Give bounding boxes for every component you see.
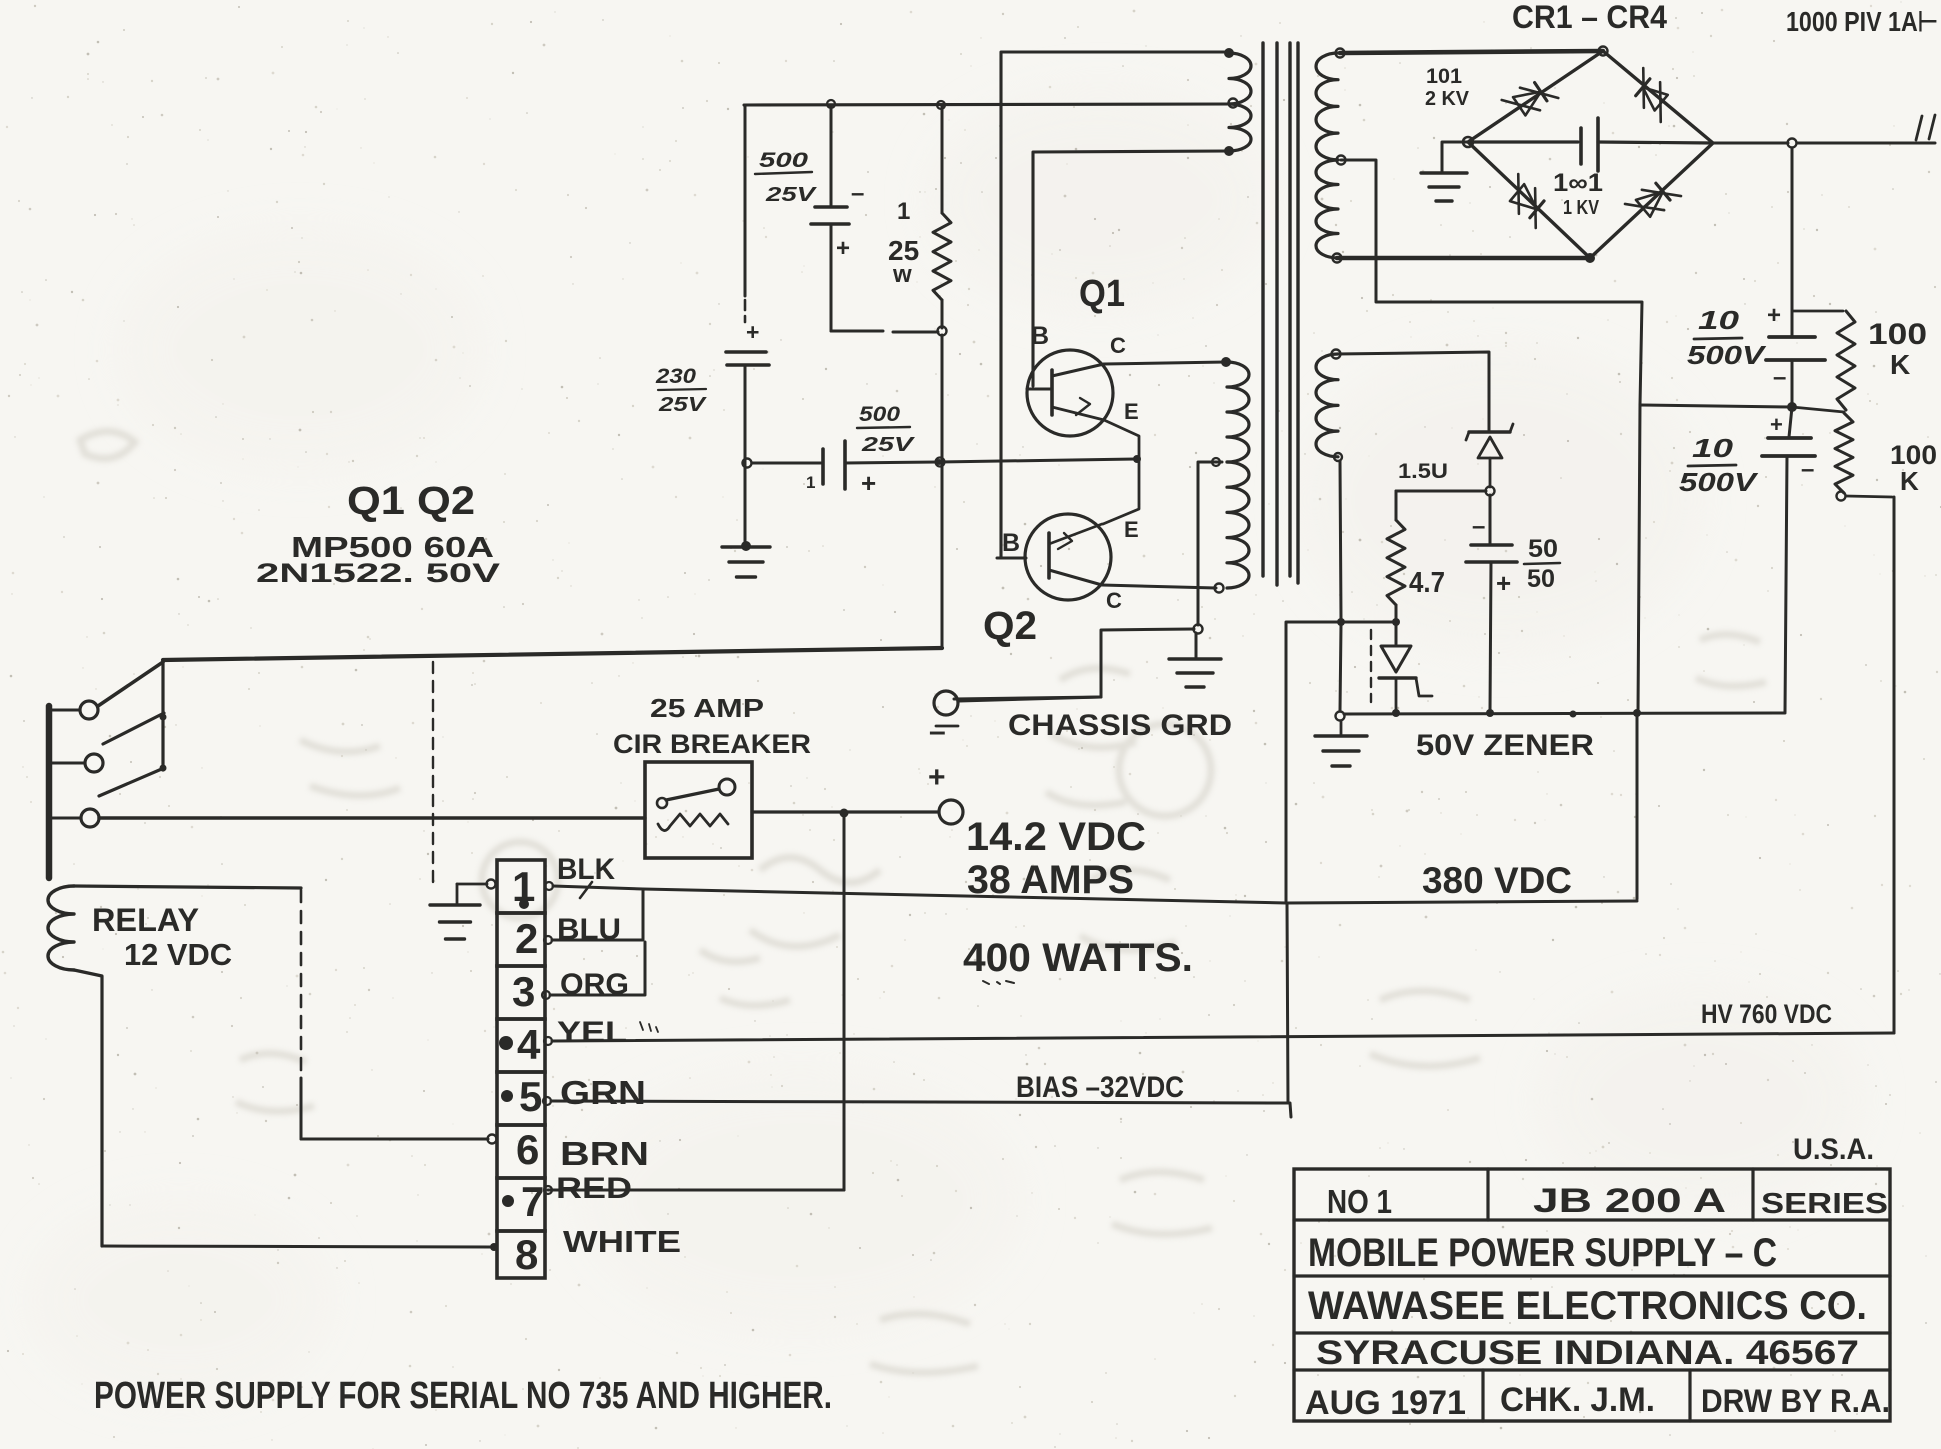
svg-text:WHITE: WHITE [563,1224,681,1259]
label BRN [560,1135,649,1172]
label C5 minus [1801,456,1814,483]
svg-text:230: 230 [655,365,696,388]
diode CR3 [1510,174,1544,228]
svg-text:K: K [1890,349,1910,380]
label 1000 PIV 1A [1786,6,1938,37]
label JB 200 A [1533,1182,1726,1220]
label WHITE [563,1224,681,1259]
label Q1 designator [1079,273,1125,315]
label minus sign [929,715,946,748]
label Q1 E [1124,399,1139,424]
svg-text:CHASSIS GRD: CHASSIS GRD [1008,709,1232,742]
resistor 100K upper [1837,311,1855,410]
svg-text:4: 4 [517,1021,541,1068]
resistor 100K lower [1835,413,1853,501]
wire Q2 base riser [1000,104,1003,558]
capacitor C5 10/500V [1762,407,1815,712]
wire y622 bus [1286,618,1400,901]
label 50V ZENER [1416,729,1594,762]
relay right lead dashed [300,890,303,1139]
label C4 plus [1767,302,1781,329]
svg-text:25V: 25V [861,434,916,456]
svg-text:25 AMP: 25 AMP [650,693,764,723]
svg-text:6: 6 [516,1126,539,1173]
label 100K upper [1868,318,1927,380]
breaker zigzag [658,814,728,831]
diode CR1 [1502,83,1559,116]
ground at terminal 1 [430,880,496,940]
wire BLK out [545,882,643,890]
label Q1 C [1110,333,1126,358]
svg-text:50: 50 [1528,535,1558,563]
svg-text:50: 50 [1527,565,1555,593]
wire Q1 collector [1104,357,1231,367]
label 38 AMPS [967,858,1134,902]
svg-text:w: w [892,261,912,288]
label ORG [560,968,629,1001]
svg-text:YEL: YEL [557,1016,627,1049]
svg-text:4.7: 4.7 [1409,567,1445,599]
svg-text:WAWASEE ELECTRONICS CO.: WAWASEE ELECTRONICS CO. [1308,1284,1867,1328]
wire Q1 emitter to node [1104,420,1141,463]
svg-text:101: 101 [1426,65,1462,88]
wire RED run [548,1189,844,1192]
svg-text:NO 1: NO 1 [1327,1183,1392,1220]
wire HV riser [1893,497,1896,1033]
wire RED terminal [544,1186,552,1194]
svg-text:25V: 25V [765,184,818,206]
svg-text:10: 10 [1698,305,1740,335]
wire C1 bottom to resistor [831,327,947,336]
wire output junction drop [843,813,846,1190]
wire ground bus y714 [1344,709,1785,718]
wire breaker to plus terminal [752,809,938,818]
ground under C2 [722,541,770,577]
wire minus terminal [954,697,1101,699]
wire C3 to emitter node [845,459,1136,465]
label Q2 designator [983,604,1037,648]
svg-text:Q1 Q2: Q1 Q2 [347,479,475,523]
label USA [1793,1133,1874,1166]
wire relay to terminal 6 [301,1135,497,1144]
label C3 value 500/25V [857,403,915,456]
label POWER SUPPLY FOR SERIAL [94,1375,832,1417]
label RELAY 12VDC [92,902,232,972]
svg-text:–: – [1773,364,1786,391]
title block grid [1294,1169,1890,1421]
label 2KV [1425,88,1470,110]
svg-text:E: E [1124,517,1139,542]
circuit breaker box [645,762,752,858]
svg-text:CHK. J.M.: CHK. J.M. [1500,1381,1655,1419]
svg-text:U.S.A.: U.S.A. [1793,1133,1874,1166]
svg-text:HV 760 VDC: HV 760 VDC [1701,999,1832,1029]
wire bias riser [1287,903,1288,1103]
svg-text:E: E [1124,399,1139,424]
svg-text:RELAY: RELAY [92,902,199,938]
svg-text:380 VDC: 380 VDC [1422,860,1572,901]
wire R2 bottom to HV line [1846,496,1892,497]
wire secondary to rectifier diode [1336,352,1489,430]
label 1KV [1563,197,1600,219]
svg-text:1000 PIV 1A⊢: 1000 PIV 1A⊢ [1786,6,1938,37]
wire bridge bottom feed [1337,256,1590,261]
label DRW BY RA [1701,1383,1890,1419]
dashed drop to terminal 1 ground [432,662,434,884]
wire HV cap column [1791,148,1794,336]
svg-text:1: 1 [806,473,815,492]
transformer secondary lower coil [1316,350,1342,462]
junction caps midpoint [1640,402,1844,412]
svg-text:+: + [1770,412,1783,437]
diode CR4 [1625,183,1681,217]
svg-text:B: B [1031,322,1049,350]
svg-text:SERIES: SERIES [1761,1188,1888,1220]
label HV 760 VDC [1701,999,1832,1029]
label Q2 C [1106,588,1122,613]
label Q2 E [1124,517,1139,542]
wire secondary lower tap down [1340,461,1341,711]
svg-text:2N1522. 50V: 2N1522. 50V [256,558,500,588]
svg-text:1: 1 [897,198,910,225]
label MOBILE POWER SUPPLY - C [1308,1231,1777,1275]
wire R bottom down to switch bus [936,335,945,648]
resistor 4.7 [1387,491,1405,644]
wire secondary mid to caps [1341,160,1642,405]
label 1.5V [1398,460,1448,483]
svg-text:1 KV: 1 KV [1563,197,1600,219]
svg-text:100: 100 [1868,318,1927,351]
svg-text:8: 8 [515,1231,538,1278]
breaker lever [657,779,735,808]
label GRN [560,1074,646,1111]
label C1 minus [851,180,864,207]
transistor Q2 [997,514,1111,600]
wire lower bus to breaker [99,816,645,819]
transformer core [1263,43,1298,585]
capacitor C6 50/50 [1466,495,1517,712]
svg-text:MOBILE POWER SUPPLY – C: MOBILE POWER SUPPLY – C [1308,1231,1777,1275]
terminal strip boxes [497,860,545,1278]
wire YEL HV bus [544,1033,1894,1045]
svg-text:CIR BREAKER: CIR BREAKER [613,729,811,759]
label C5 value [1679,433,1759,497]
label 25 AMP [650,693,764,723]
svg-text:1∞1: 1∞1 [1553,169,1603,197]
svg-text:JB 200 A: JB 200 A [1533,1182,1726,1220]
svg-text:B: B [1002,529,1020,557]
terminal chassis minus [934,691,958,726]
wire ORG out [542,942,645,999]
label BLK [557,853,615,898]
label SERIES [1761,1188,1888,1220]
svg-text:CR1 – CR4: CR1 – CR4 [1512,0,1667,35]
svg-text:C: C [1110,333,1126,358]
wire bridge output [1713,139,1935,148]
diode D5 [1466,424,1513,496]
terminal numbers [499,863,544,1278]
ground under secondary lower [1315,712,1367,767]
label C6 value [1524,535,1560,593]
svg-text:5: 5 [519,1073,542,1120]
wire GRN BIAS bus [543,1097,1291,1117]
wire chassis ground run [959,629,1194,701]
svg-text:+: + [1767,302,1781,329]
label CR1-CR4 [1512,0,1667,35]
label C3 plus [861,468,876,498]
wire switch bus [163,648,942,660]
svg-text:–: – [851,180,864,207]
switch contact 2 [49,713,164,772]
svg-text:C: C [1106,588,1122,613]
wire top bus y=105 [744,99,1238,110]
svg-text:DRW BY R.A.: DRW BY R.A. [1701,1383,1890,1419]
label Q1 B [1031,322,1049,350]
label NO 1 [1327,1183,1392,1220]
label C2 value 230/25V [655,365,707,416]
label C6 plus [1496,568,1511,598]
svg-text:RED: RED [556,1172,632,1205]
svg-text:500V: 500V [1679,467,1759,497]
label C3 one [806,473,815,492]
relay left lead [74,970,102,1246]
label Q2 B [1002,529,1020,557]
svg-text:10: 10 [1692,433,1734,463]
label BLU [557,913,621,946]
wire 380 bus [643,889,1637,903]
wire WHITE run [102,1243,498,1251]
svg-text:50V ZENER: 50V ZENER [1416,729,1594,762]
capacitor 1001 1KV [1468,118,1713,171]
svg-text:+: + [836,235,850,262]
svg-text:BLK: BLK [557,853,615,886]
svg-text:14.2 VDC: 14.2 VDC [966,815,1146,859]
svg-text:AUG 1971: AUG 1971 [1305,1384,1466,1422]
svg-text:Q1: Q1 [1079,273,1125,315]
label RED [556,1172,632,1205]
wire Q2 collector [1102,584,1224,593]
bridge diamond [1463,47,1713,264]
label AUG 1971 [1305,1384,1466,1422]
label C4 minus [1773,364,1786,391]
svg-text:+: + [746,319,759,345]
ground at center tap [1169,633,1221,687]
ground at bridge left [1421,142,1468,201]
label 14.2 VDC [966,815,1146,859]
wire riser to transformer top [1001,48,1234,558]
label BIAS -32VDC [1016,1071,1184,1104]
label H tick [1916,115,1935,140]
wire 380 vertical [1636,713,1639,899]
wire stub to 100K R1 [1792,310,1843,313]
terminal plus [939,800,963,824]
label 380 VDC [1422,860,1572,901]
svg-text:BRN: BRN [560,1135,649,1172]
label plus sign [928,761,946,794]
dash line beside zener [1370,630,1372,702]
label 101 [1426,65,1462,88]
label CHASSIS GRD [1008,709,1232,742]
svg-text:K: K [1900,466,1919,496]
svg-text:400 WATTS.: 400 WATTS. [963,936,1193,980]
svg-text:SYRACUSE INDIANA. 46567: SYRACUSE INDIANA. 46567 [1316,1334,1859,1372]
label CHK JM [1500,1381,1655,1419]
label C4 value [1687,305,1767,370]
capacitor C4 10/500V [1766,337,1825,404]
svg-text:25V: 25V [658,394,707,416]
svg-text:2: 2 [515,915,538,962]
svg-text:500: 500 [759,149,808,172]
svg-text:+: + [861,468,876,498]
transistor Q1 [1027,350,1113,436]
svg-text:BIAS –32VDC: BIAS –32VDC [1016,1071,1184,1104]
label CIR BREAKER [613,729,811,759]
wire emitter node to Q2 [1103,459,1139,524]
svg-text:1.5U: 1.5U [1398,460,1448,483]
svg-text:–: – [1801,456,1814,483]
switch contact 1 [49,662,163,719]
svg-text:7: 7 [521,1178,544,1225]
transformer primary lower coil [1223,358,1249,588]
label C1 value 500/25V [755,149,817,206]
relay coil [48,886,301,970]
svg-text:+: + [1496,568,1511,598]
label C5 plus [1770,412,1783,437]
capacitor C2 230/25V [726,105,769,546]
label 4.7 [1409,567,1445,599]
transformer secondary upper coil [1316,49,1346,263]
svg-text:+: + [928,761,946,794]
svg-text:500: 500 [859,403,900,426]
wire bridge top feed [1340,51,1603,53]
wire caps column to y714 [1638,405,1640,713]
switch pole bar [46,706,53,878]
label 400 WATTS [963,936,1193,984]
label Q1 Q2 list [256,479,500,588]
svg-text:3: 3 [512,968,535,1015]
svg-text:GRN: GRN [560,1074,646,1111]
wire 1.5V node [1396,490,1486,493]
label C6 minus [1472,513,1485,540]
svg-text:POWER SUPPLY FOR SERIAL NO 735: POWER SUPPLY FOR SERIAL NO 735 AND HIGHE… [94,1375,832,1417]
svg-text:2 KV: 2 KV [1425,88,1470,110]
wire BLU out [544,891,643,944]
label 100K lower [1890,440,1937,496]
capacitor C3 500/25V plates [743,441,846,489]
svg-text:12 VDC: 12 VDC [124,937,232,972]
label R value 1 25 W [888,198,919,288]
resistor R-1ohm 25W [933,106,951,328]
svg-text:–: – [1472,513,1485,540]
zener diode 50V [1379,646,1432,717]
transformer primary upper coil [1229,53,1251,151]
wire primary lower tap to Q1 base [1033,146,1234,386]
label WAWASEE ELECTRONICS CO. [1308,1284,1867,1328]
wire center tap to ground [1194,458,1223,634]
label 1001 [1553,169,1603,197]
switch contact 3 [49,768,164,827]
svg-text:Q2: Q2 [983,604,1037,648]
diode CR2 [1636,68,1668,122]
svg-text:500V: 500V [1687,340,1767,370]
label SYRACUSE INDIANA 46567 [1316,1334,1859,1372]
switch common riser [160,662,167,772]
svg-text:–: – [929,715,946,748]
label C1 plus [836,235,850,262]
label C2 plus top [746,319,759,345]
capacitor C1 500/25V plates [811,105,849,331]
label YEL [557,1016,658,1049]
